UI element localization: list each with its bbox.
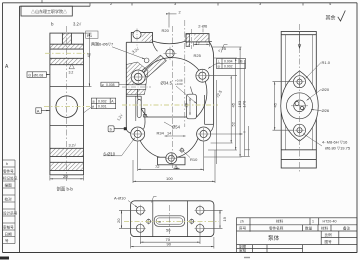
svg-text:52: 52 bbox=[231, 121, 236, 126]
svg-text:45: 45 bbox=[273, 102, 278, 107]
svg-text:A: A bbox=[37, 109, 40, 114]
svg-text:0.008: 0.008 bbox=[106, 83, 115, 87]
svg-text:4- M8-6H ▽16: 4- M8-6H ▽16 bbox=[322, 140, 348, 145]
svg-text:R1.0: R1.0 bbox=[322, 60, 331, 65]
svg-text:R34: R34 bbox=[157, 130, 165, 135]
svg-text:Ø26: Ø26 bbox=[322, 108, 330, 113]
svg-text:设计员号: 设计员号 bbox=[3, 210, 18, 215]
svg-text:100: 100 bbox=[166, 176, 173, 181]
svg-text:1: 1 bbox=[312, 220, 314, 224]
svg-text:⊙: ⊙ bbox=[28, 73, 31, 77]
svg-text:Ø54: Ø54 bbox=[172, 125, 181, 130]
svg-text:标记处记: 标记处记 bbox=[3, 176, 18, 181]
svg-text:零件号: 零件号 bbox=[3, 169, 14, 174]
svg-text:备注: 备注 bbox=[343, 226, 351, 231]
svg-text:日期: 日期 bbox=[5, 231, 13, 236]
svg-text:2-Ø6: 2-Ø6 bbox=[198, 24, 208, 29]
svg-text:Ø20: Ø20 bbox=[322, 87, 330, 92]
svg-text:其余: 其余 bbox=[326, 14, 336, 21]
svg-text:20: 20 bbox=[63, 174, 68, 179]
svg-text:2: 2 bbox=[179, 11, 181, 15]
svg-text:0.002: 0.002 bbox=[98, 99, 107, 103]
svg-text:审核号: 审核号 bbox=[3, 224, 14, 229]
svg-text:3.2√: 3.2√ bbox=[69, 144, 77, 148]
svg-text:50: 50 bbox=[166, 228, 171, 233]
svg-text:数量: 数量 bbox=[305, 226, 313, 231]
svg-text:Ø0.08: Ø0.08 bbox=[34, 73, 44, 77]
svg-text:40: 40 bbox=[87, 52, 92, 57]
svg-text:zh: zh bbox=[240, 220, 244, 224]
svg-text:⊥: ⊥ bbox=[217, 60, 220, 64]
svg-text:A-Ø10: A-Ø10 bbox=[114, 196, 126, 201]
svg-text:号: 号 bbox=[5, 238, 9, 243]
svg-text:校对: 校对 bbox=[5, 196, 13, 201]
svg-text:0.001: 0.001 bbox=[98, 105, 107, 109]
svg-text:图号: 图号 bbox=[325, 239, 333, 244]
svg-text:剖面 b-b: 剖面 b-b bbox=[57, 186, 74, 193]
svg-text:0.004: 0.004 bbox=[224, 60, 233, 64]
svg-text:90: 90 bbox=[167, 242, 172, 247]
svg-text:17: 17 bbox=[196, 42, 200, 46]
svg-text:审核: 审核 bbox=[239, 248, 247, 253]
svg-text:△山东理工职学院△: △山东理工职学院△ bbox=[31, 8, 67, 14]
svg-text:26: 26 bbox=[184, 102, 189, 107]
svg-text:b: b bbox=[6, 162, 8, 166]
svg-text:3.2√: 3.2√ bbox=[73, 22, 82, 27]
svg-text:⌀: ⌀ bbox=[92, 105, 94, 109]
svg-text:19: 19 bbox=[222, 216, 227, 221]
svg-text:序号: 序号 bbox=[239, 226, 247, 231]
svg-text:R1: R1 bbox=[87, 33, 93, 38]
svg-text:零件名称: 零件名称 bbox=[269, 226, 284, 231]
svg-text:⌀: ⌀ bbox=[102, 83, 104, 87]
svg-text:Ø34.5: Ø34.5 bbox=[161, 81, 173, 86]
svg-text:Ø6.80 ▽19.75: Ø6.80 ▽19.75 bbox=[325, 146, 351, 151]
svg-text:材料: 材料 bbox=[321, 226, 329, 231]
svg-text:◎: ◎ bbox=[92, 99, 95, 103]
svg-text:A: A bbox=[175, 164, 178, 169]
svg-text:14: 14 bbox=[167, 132, 171, 136]
svg-text:◎: ◎ bbox=[217, 65, 220, 69]
svg-text:描图: 描图 bbox=[5, 183, 13, 188]
svg-text:两端6-Ø6▽7: 两端6-Ø6▽7 bbox=[91, 41, 114, 47]
svg-text:材料: 材料 bbox=[276, 219, 284, 224]
svg-text:20: 20 bbox=[116, 218, 121, 223]
svg-text:比例: 比例 bbox=[325, 232, 333, 237]
svg-text:45: 45 bbox=[231, 102, 236, 107]
svg-text:R25: R25 bbox=[194, 53, 202, 58]
svg-text:0.002: 0.002 bbox=[224, 65, 233, 69]
svg-text:+0.03: +0.03 bbox=[175, 82, 183, 86]
svg-text:HT20-40: HT20-40 bbox=[323, 220, 337, 224]
svg-text:R10: R10 bbox=[190, 157, 198, 162]
svg-text:泵体: 泵体 bbox=[268, 234, 280, 242]
svg-text:170: 170 bbox=[242, 100, 247, 107]
svg-text:72: 72 bbox=[155, 164, 160, 169]
svg-text:3.2: 3.2 bbox=[69, 71, 74, 75]
svg-text:R20: R20 bbox=[162, 28, 170, 33]
